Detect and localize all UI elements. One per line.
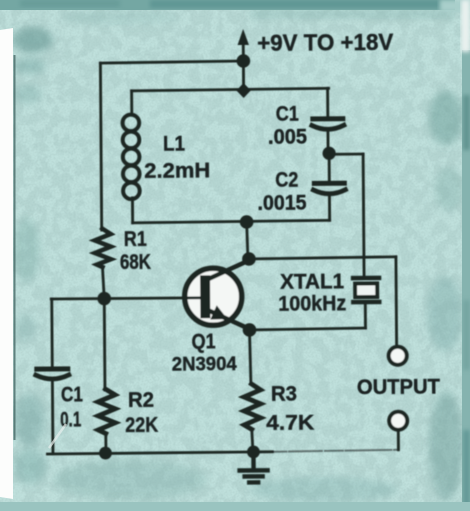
wire: collector rail to output: [249, 257, 397, 348]
capacitor C1 .005: [312, 88, 345, 153]
power arrow +V supply: [237, 29, 249, 61]
wire: vertical from tank bottom to collector: [247, 222, 248, 259]
capacitor C1 0.1 (bypass): [36, 369, 70, 454]
resistor R2: [98, 389, 115, 434]
svg-text:XTAL1: XTAL1: [280, 270, 344, 294]
svg-text:100kHz: 100kHz: [278, 292, 346, 316]
wire: bottom output terminal to ground rail: [397, 430, 400, 450]
wire: base node left branch to C1 bypass: [51, 299, 105, 367]
node D: tank-bottom / collector junction dot: [240, 215, 254, 229]
wire: C1/C2 tap to crystal: [329, 154, 364, 276]
svg-text:C1: C1: [61, 383, 83, 406]
wire: R1 bottom to base node: [102, 267, 104, 299]
label R2 value: [125, 389, 158, 437]
label C2 value: [257, 168, 307, 214]
label C1 value: [268, 102, 308, 148]
white scratch artifact near C1 bypass: [49, 424, 66, 448]
wire: short vertical from supply dot to tank rail: [242, 61, 245, 89]
thin column rule on left margin: [14, 55, 16, 440]
capacitor C2 .0015: [313, 153, 346, 220]
wire: top supply rail: [100, 61, 243, 63]
svg-text:68K: 68K: [120, 251, 151, 274]
svg-text:C1: C1: [276, 103, 299, 126]
node G: emitter junction dot: [243, 323, 257, 337]
resistor R1: [95, 229, 111, 268]
right dark column (adjacent print): [461, 0, 470, 511]
svg-text:R2: R2: [128, 389, 154, 412]
crystal XTAL1: [353, 278, 379, 302]
wire: tank top rail: [132, 88, 329, 91]
svg-text:OUTPUT: OUTPUT: [357, 375, 440, 399]
svg-text:R1: R1: [124, 228, 147, 251]
svg-text:4.7K: 4.7K: [266, 411, 314, 434]
svg-text:C2: C2: [275, 169, 298, 192]
wire: R2 bottom to ground rail: [104, 434, 107, 453]
ground: [239, 452, 267, 483]
wire: tank bottom rail: [133, 220, 330, 223]
label C1 bypass value: [60, 383, 84, 431]
wire: left vertical from supply rail down to R1: [100, 63, 101, 230]
node C: C1/C2 midpoint junction dot: [322, 147, 335, 160]
wire: base node down to R2: [103, 299, 107, 390]
wire: bottom ground rail: [47, 452, 272, 454]
transistor Q1: [184, 260, 251, 331]
wire: emitter down to R3: [249, 330, 250, 384]
wire: bottom ground rail faded right part: [272, 450, 398, 452]
wire: emitter rail to crystal bottom: [249, 302, 365, 330]
label L1 value: [144, 132, 210, 183]
label +9V TO +18V: [257, 29, 394, 56]
svg-text:+9V TO +18V: +9V TO +18V: [257, 29, 394, 56]
node H: bottom rail dot at R2: [99, 447, 112, 460]
node E: collector junction dot: [242, 252, 256, 266]
svg-text:2.2mH: 2.2mH: [144, 159, 210, 183]
output terminal bottom: [389, 412, 407, 430]
node A: supply junction dot: [237, 54, 251, 68]
bottom band (adjacent print): [0, 502, 470, 511]
label OUTPUT: [357, 375, 440, 399]
output terminal top: [389, 347, 407, 365]
node F: base junction dot: [97, 292, 111, 306]
svg-text:.005: .005: [268, 125, 307, 148]
node B: diamond junction on tank top rail: [236, 83, 251, 98]
svg-text:R3: R3: [271, 383, 297, 406]
label R1 value: [120, 228, 151, 274]
svg-text:22K: 22K: [125, 414, 158, 437]
inductor L1: [122, 91, 140, 223]
label R3 value: [266, 382, 314, 434]
left white page margin: [0, 28, 13, 499]
label Q1 2N3904: [171, 330, 237, 376]
wire: R3 bottom to ground rail: [252, 429, 253, 452]
svg-text:.0015: .0015: [257, 191, 306, 214]
svg-text:L1: L1: [163, 132, 185, 155]
wire: base wire from junction to Q1: [104, 296, 200, 300]
resistor R3: [244, 384, 261, 430]
node I: bottom rail dot at ground: [247, 445, 260, 458]
svg-text:Q1: Q1: [191, 330, 215, 353]
top dark band (adjacent print): [0, 0, 470, 12]
svg-text:2N3904: 2N3904: [172, 354, 238, 376]
label XTAL1 value: [278, 270, 346, 316]
